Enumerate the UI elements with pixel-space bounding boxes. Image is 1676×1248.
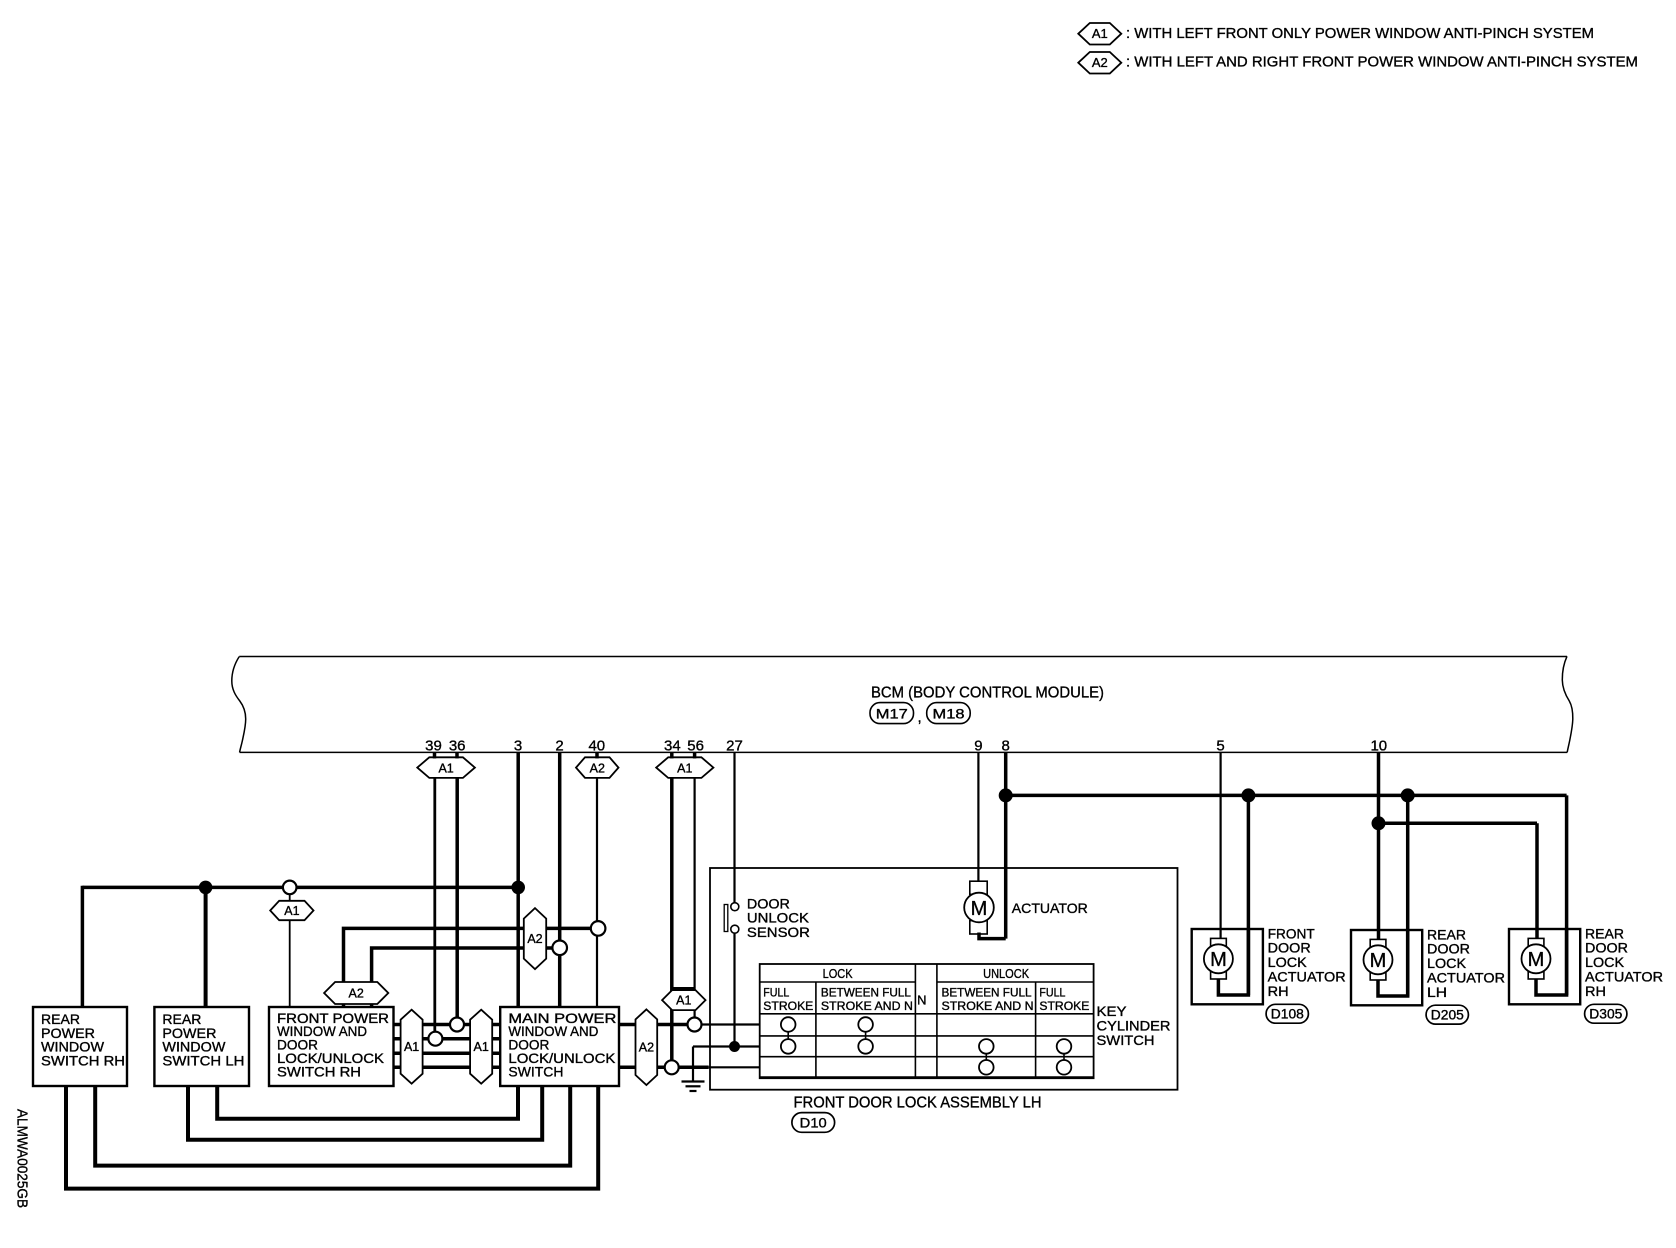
BCM band left torn edge [232,657,246,753]
svg-text:FULL: FULL [763,985,789,999]
stub hexagon A2 to box pin 2 [370,1004,374,1007]
svg-text:M: M [971,898,988,920]
svg-text:A2: A2 [590,761,605,775]
row 4 extension from main switch [619,1066,709,1070]
door unlock sensor contact top [731,903,739,911]
svg-text:BCM (BODY CONTROL MODULE): BCM (BODY CONTROL MODULE) [871,685,1104,702]
svg-text:FRONT DOOR LOCK ASSEMBLY LH: FRONT DOOR LOCK ASSEMBLY LH [794,1094,1042,1111]
wire pin 27 lower part [733,933,735,1046]
stub hexagon A2 to box pin 1 [342,1004,346,1007]
inline connector circle wire56/row1 [688,1018,702,1032]
front door lock actuator RH motor bottom terminal [1211,967,1227,980]
door unlock sensor label [747,895,810,940]
svg-text:SWITCH: SWITCH [1097,1032,1155,1048]
table header underline lock [760,981,916,983]
key cylinder switch label [1097,1003,1171,1048]
connector D205 [1426,1005,1468,1024]
svg-text:: WITH LEFT FRONT ONLY POWER W: : WITH LEFT FRONT ONLY POWER WINDOW ANTI… [1126,25,1594,42]
wire rear RH switch pin2 to main switch pin3 [95,1086,570,1166]
svg-text:9: 9 [974,738,982,755]
svg-text:N: N [917,993,926,1008]
key cylinder switch table frame [760,964,1094,1078]
svg-text:M: M [1210,949,1227,971]
rear door lock actuator RH motor right-pin elbow [1536,929,1567,995]
rear door lock actuator RH motor top terminal [1528,938,1544,951]
svg-text:2: 2 [555,738,563,755]
svg-text:A1: A1 [474,1040,489,1054]
svg-text:A1: A1 [438,761,453,775]
svg-text:D305: D305 [1589,1007,1622,1022]
legend connector symbol A1 [1078,23,1121,45]
svg-text:A1: A1 [677,761,692,775]
junction dot wire8/bus [999,788,1013,802]
svg-text:10: 10 [1370,738,1387,755]
option hexagon A1 below power net [270,901,313,920]
connector option hexagon A1 (pins 39,36) [417,757,475,778]
table divider: lock col split [815,982,817,1078]
svg-text:STROKE AND N: STROKE AND N [942,999,1034,1013]
main power window and door lock/unlock switch box [500,1007,619,1086]
ground symbol [682,1082,705,1092]
column header BETWEEN FULL STROKE AND N (lock) [821,985,913,1013]
front door lock actuator RH motor top terminal [1211,938,1227,951]
svg-text:56: 56 [687,738,704,755]
wire pin 9 [977,752,979,881]
door lock power bus from pin 8 [1006,794,1567,798]
front power window and door lock/unlock switch RH box [269,1007,394,1086]
svg-text:D205: D205 [1431,1007,1464,1022]
svg-text:8: 8 [1002,738,1010,755]
contact pair lock full stroke [781,1017,796,1053]
rear door lock actuator LH label [1427,926,1505,1000]
svg-text:M18: M18 [933,705,965,721]
BCM (body control module) band top edge [239,656,1567,658]
wire pin 27 upper part [733,752,735,902]
wire pin 36 [455,778,459,1018]
svg-text:A2: A2 [527,932,542,946]
svg-text:36: 36 [449,738,466,755]
bus branch down to D205 right pin [1406,795,1410,996]
rear door lock actuator RH box [1509,929,1580,1004]
svg-text:40: 40 [588,738,605,755]
svg-text:M: M [1370,950,1387,972]
svg-text:ACTUATOR: ACTUATOR [1012,900,1088,916]
connector D10 [792,1113,835,1133]
wire rear LH switch pin2 to main switch pin1 [217,1086,518,1119]
svg-text:A2: A2 [639,1041,654,1055]
rear power window switch LH box [154,1007,249,1086]
rear power window switch RH box [33,1007,127,1086]
option hexagon A1 vertical (left) [401,1010,423,1084]
second bus from pin 10 [1379,822,1538,826]
inline connector circle wire34/row4 [665,1060,679,1074]
second bus branch down to D305 left pin [1535,823,1539,938]
svg-text:34: 34 [664,738,681,755]
table divider: N column right [936,964,938,1078]
interconnect row 2 front RH to main switch [394,1037,501,1041]
table row line 1 [760,1013,1094,1015]
svg-text:D108: D108 [1271,1007,1304,1022]
svg-text:ALMWA0025GB: ALMWA0025GB [14,1109,31,1208]
branch wire from front switch RH to wire 2 [372,948,560,982]
bus branch down to D108 right pin [1247,795,1251,995]
wire 27 horizontal net to key cylinder row 2 [693,1045,760,1047]
connector M17 [870,703,914,724]
inline connector circle on wire 2 [552,941,567,956]
wire pin 56 [693,778,695,1018]
bus branch down to D305 right pin [1565,795,1569,995]
rear door lock actuator RH motor bottom terminal [1528,967,1544,980]
connector D305 [1585,1004,1627,1023]
feed wire to rear power window switch LH [204,887,208,1007]
svg-text:SWITCH LH: SWITCH LH [162,1053,244,1069]
svg-text:LOCK: LOCK [823,966,853,981]
svg-text:FULL: FULL [1039,985,1065,999]
front door lock actuator RH motor circle [1204,944,1233,973]
svg-text:STROKE: STROKE [1039,999,1089,1013]
svg-text:,: , [918,709,922,726]
option hexagon A1 vertical (right) [470,1010,492,1084]
option hexagon A2 vertical right of main switch [636,1009,658,1085]
actuator motor M top terminal [970,881,987,894]
actuator motor M bottom terminal [970,921,987,934]
svg-text:RH: RH [1585,983,1606,999]
interconnect row 3 front RH to main switch [394,1051,501,1055]
svg-text:SWITCH RH: SWITCH RH [41,1053,125,1069]
junction dot wire 27 [729,1041,740,1052]
inline connector circle on power net [283,881,297,895]
svg-text:M17: M17 [876,705,908,721]
connector M18 [927,703,971,724]
row 4 extension thin part into assembly [709,1066,760,1068]
BCM band right torn edge [1562,656,1573,752]
table row line 2 [760,1035,1094,1037]
svg-text:UNLOCK: UNLOCK [983,966,1029,981]
svg-text:STROKE AND N: STROKE AND N [821,999,913,1013]
svg-text:RH: RH [1268,983,1289,999]
connector option hexagon A2 (pin 40) [576,757,619,778]
rear door lock actuator LH motor top terminal [1370,939,1386,952]
svg-text:: WITH LEFT AND RIGHT FRONT PO: : WITH LEFT AND RIGHT FRONT POWER WINDOW… [1126,54,1638,71]
door unlock sensor plate [724,905,728,932]
feed wire to rear power window switch RH [81,886,85,1007]
rear door lock actuator LH motor bottom terminal [1370,968,1386,981]
wire pin 3 [516,752,520,1007]
table header underline unlock [937,981,1094,983]
BCM band bottom edge [240,751,1568,753]
front door lock actuator RH box [1192,929,1263,1004]
junction dot at wire 3 [511,881,525,895]
option hexagon A2 above front switch RH [324,982,388,1004]
rear door lock actuator LH box [1351,930,1422,1005]
junction dot at rear switch LH feed [199,881,213,895]
svg-text:LH: LH [1427,984,1447,1000]
option hexagon A1 on wires 34/56 [662,990,705,1010]
svg-text:5: 5 [1216,738,1224,755]
pin stub [595,752,599,758]
row 1 extension thin part into assembly [695,1023,761,1025]
front door lock actuator RH motor right-pin elbow [1218,929,1248,995]
wire pin 10 [1377,752,1381,939]
inline connector circle wire39/row2 [428,1032,442,1046]
pin stub [455,752,459,758]
svg-text:A2: A2 [1092,55,1108,70]
legend connector symbol A2 [1078,52,1121,74]
wire pin 8 elbow to actuator motor [979,933,1006,939]
svg-text:A1: A1 [676,994,691,1008]
connector option hexagon A1 (pins 34,56) [656,757,713,778]
svg-text:3: 3 [514,738,522,755]
ground stem [692,1047,694,1082]
svg-text:A1: A1 [1092,26,1108,41]
interconnect row 4 front RH to main switch [394,1066,501,1070]
power net to rear switches [82,886,518,890]
table row line 3 [760,1056,1094,1058]
pin stub [433,752,437,758]
connector D108 [1266,1004,1308,1023]
svg-text:27: 27 [726,738,743,755]
interconnect row 1 front RH to main switch [394,1023,501,1027]
svg-text:SENSOR: SENSOR [747,924,810,940]
column header FULL STROKE (lock) [763,985,813,1013]
table bottom heavy border [760,1076,1094,1079]
junction dot wire10/bus2 [1372,816,1386,830]
svg-text:SWITCH RH: SWITCH RH [277,1063,361,1079]
wire pin 8 [1004,752,1008,938]
svg-text:D10: D10 [800,1114,827,1130]
rear door lock actuator RH label [1585,925,1663,999]
svg-text:BETWEEN FULL: BETWEEN FULL [821,985,911,999]
svg-text:M: M [1528,949,1545,971]
actuator motor M circle [964,893,994,923]
wire pin 39 [433,778,436,1032]
contact pair lock between [858,1017,873,1053]
wire pin 40 [596,778,598,1007]
table divider: N column left [914,964,916,1078]
front door lock actuator RH label [1268,925,1346,999]
row 1 extension from main switch to door lock assembly [619,1023,695,1027]
option hexagon A2 vertical on branch wires [524,908,546,969]
pin stub [693,752,697,758]
svg-text:A1: A1 [284,904,299,918]
rear door lock actuator LH motor right-pin elbow [1378,930,1408,996]
table divider: unlock col split [1035,982,1037,1078]
wire from A1 connector down to front switch RH [289,894,291,1008]
branch wire from front switch RH to wire 40 [344,928,599,982]
wire rear LH switch pin1 to main switch pin2 [188,1086,542,1140]
svg-text:39: 39 [425,738,442,755]
svg-text:A1: A1 [404,1040,419,1054]
svg-text:SWITCH: SWITCH [508,1063,563,1079]
column header FULL STROKE (unlock) [1039,985,1089,1013]
jog bar joining wires 34 and 56 [672,987,695,991]
contact pair unlock between [979,1039,994,1075]
junction dot bus/D205 [1401,788,1415,802]
inline connector circle on wire 40 [591,921,606,936]
svg-text:STROKE: STROKE [763,999,813,1013]
rear door lock actuator RH motor circle [1522,944,1551,973]
door unlock sensor contact bottom [731,925,739,933]
wire pin 34 [670,778,674,1061]
pin stub [670,752,674,758]
wire pin 2 [558,752,562,1007]
svg-text:A2: A2 [349,987,364,1001]
wire pin 5 [1219,752,1221,938]
inline connector circle wire36/row1 [450,1018,464,1032]
svg-text:BETWEEN FULL: BETWEEN FULL [942,985,1032,999]
rear door lock actuator LH motor circle [1364,945,1393,974]
junction dot bus/D108 [1241,788,1255,802]
wire rear RH switch pin1 to main switch pin4 [66,1086,598,1189]
front door lock assembly LH box [710,868,1178,1090]
column header BETWEEN FULL STROKE AND N (unlock) [942,985,1034,1013]
contact pair unlock full stroke [1057,1039,1072,1075]
